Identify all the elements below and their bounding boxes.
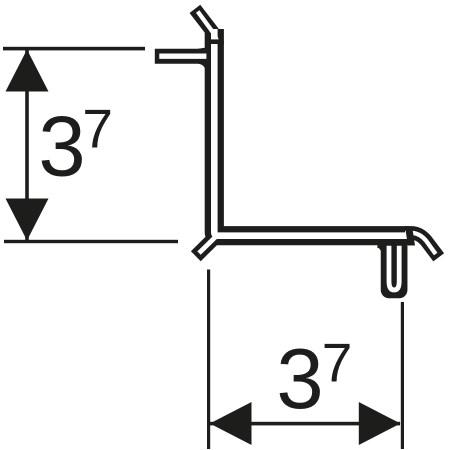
profile body L (white core) [214,29,409,236]
top extension line [3,47,145,51]
leg top-left fillet [378,246,383,252]
vertical dimension line [25,49,29,241]
profile body L (black outline) [214,29,409,236]
bottom arrowhead [6,199,49,241]
svg-text:3: 3 [38,99,85,194]
tab bottom fillet edge [199,62,207,68]
top fin (white core) [198,12,217,45]
horizontal dimension line [210,422,400,426]
right end fin (black outline) [405,233,439,258]
svg-text:7: 7 [82,97,113,159]
corner fin (white core) [199,236,216,253]
right leg fold (white core U) [389,246,399,290]
right bend junction tick [405,229,415,246]
svg-text:7: 7 [322,331,353,393]
right arrowhead (bottom dim) [359,402,401,445]
left arrowhead (bottom dim) [210,402,252,445]
left tab (white core) [159,54,206,59]
left tab (black outline) [155,49,213,64]
top bend junction tick [205,39,223,44]
corner fin (black outline) [196,238,214,256]
tab top edge at junction [198,47,211,54]
svg-text:3: 3 [276,332,323,427]
top arrowhead [6,50,49,92]
right leg fold (black outline) [389,241,399,290]
bottom-left extension line [4,240,178,243]
right extension line (bottom dim) [401,302,404,449]
top fin (black outline) [195,9,217,44]
right end fin (white core) [405,233,436,254]
left extension line (bottom dim) [207,270,210,450]
